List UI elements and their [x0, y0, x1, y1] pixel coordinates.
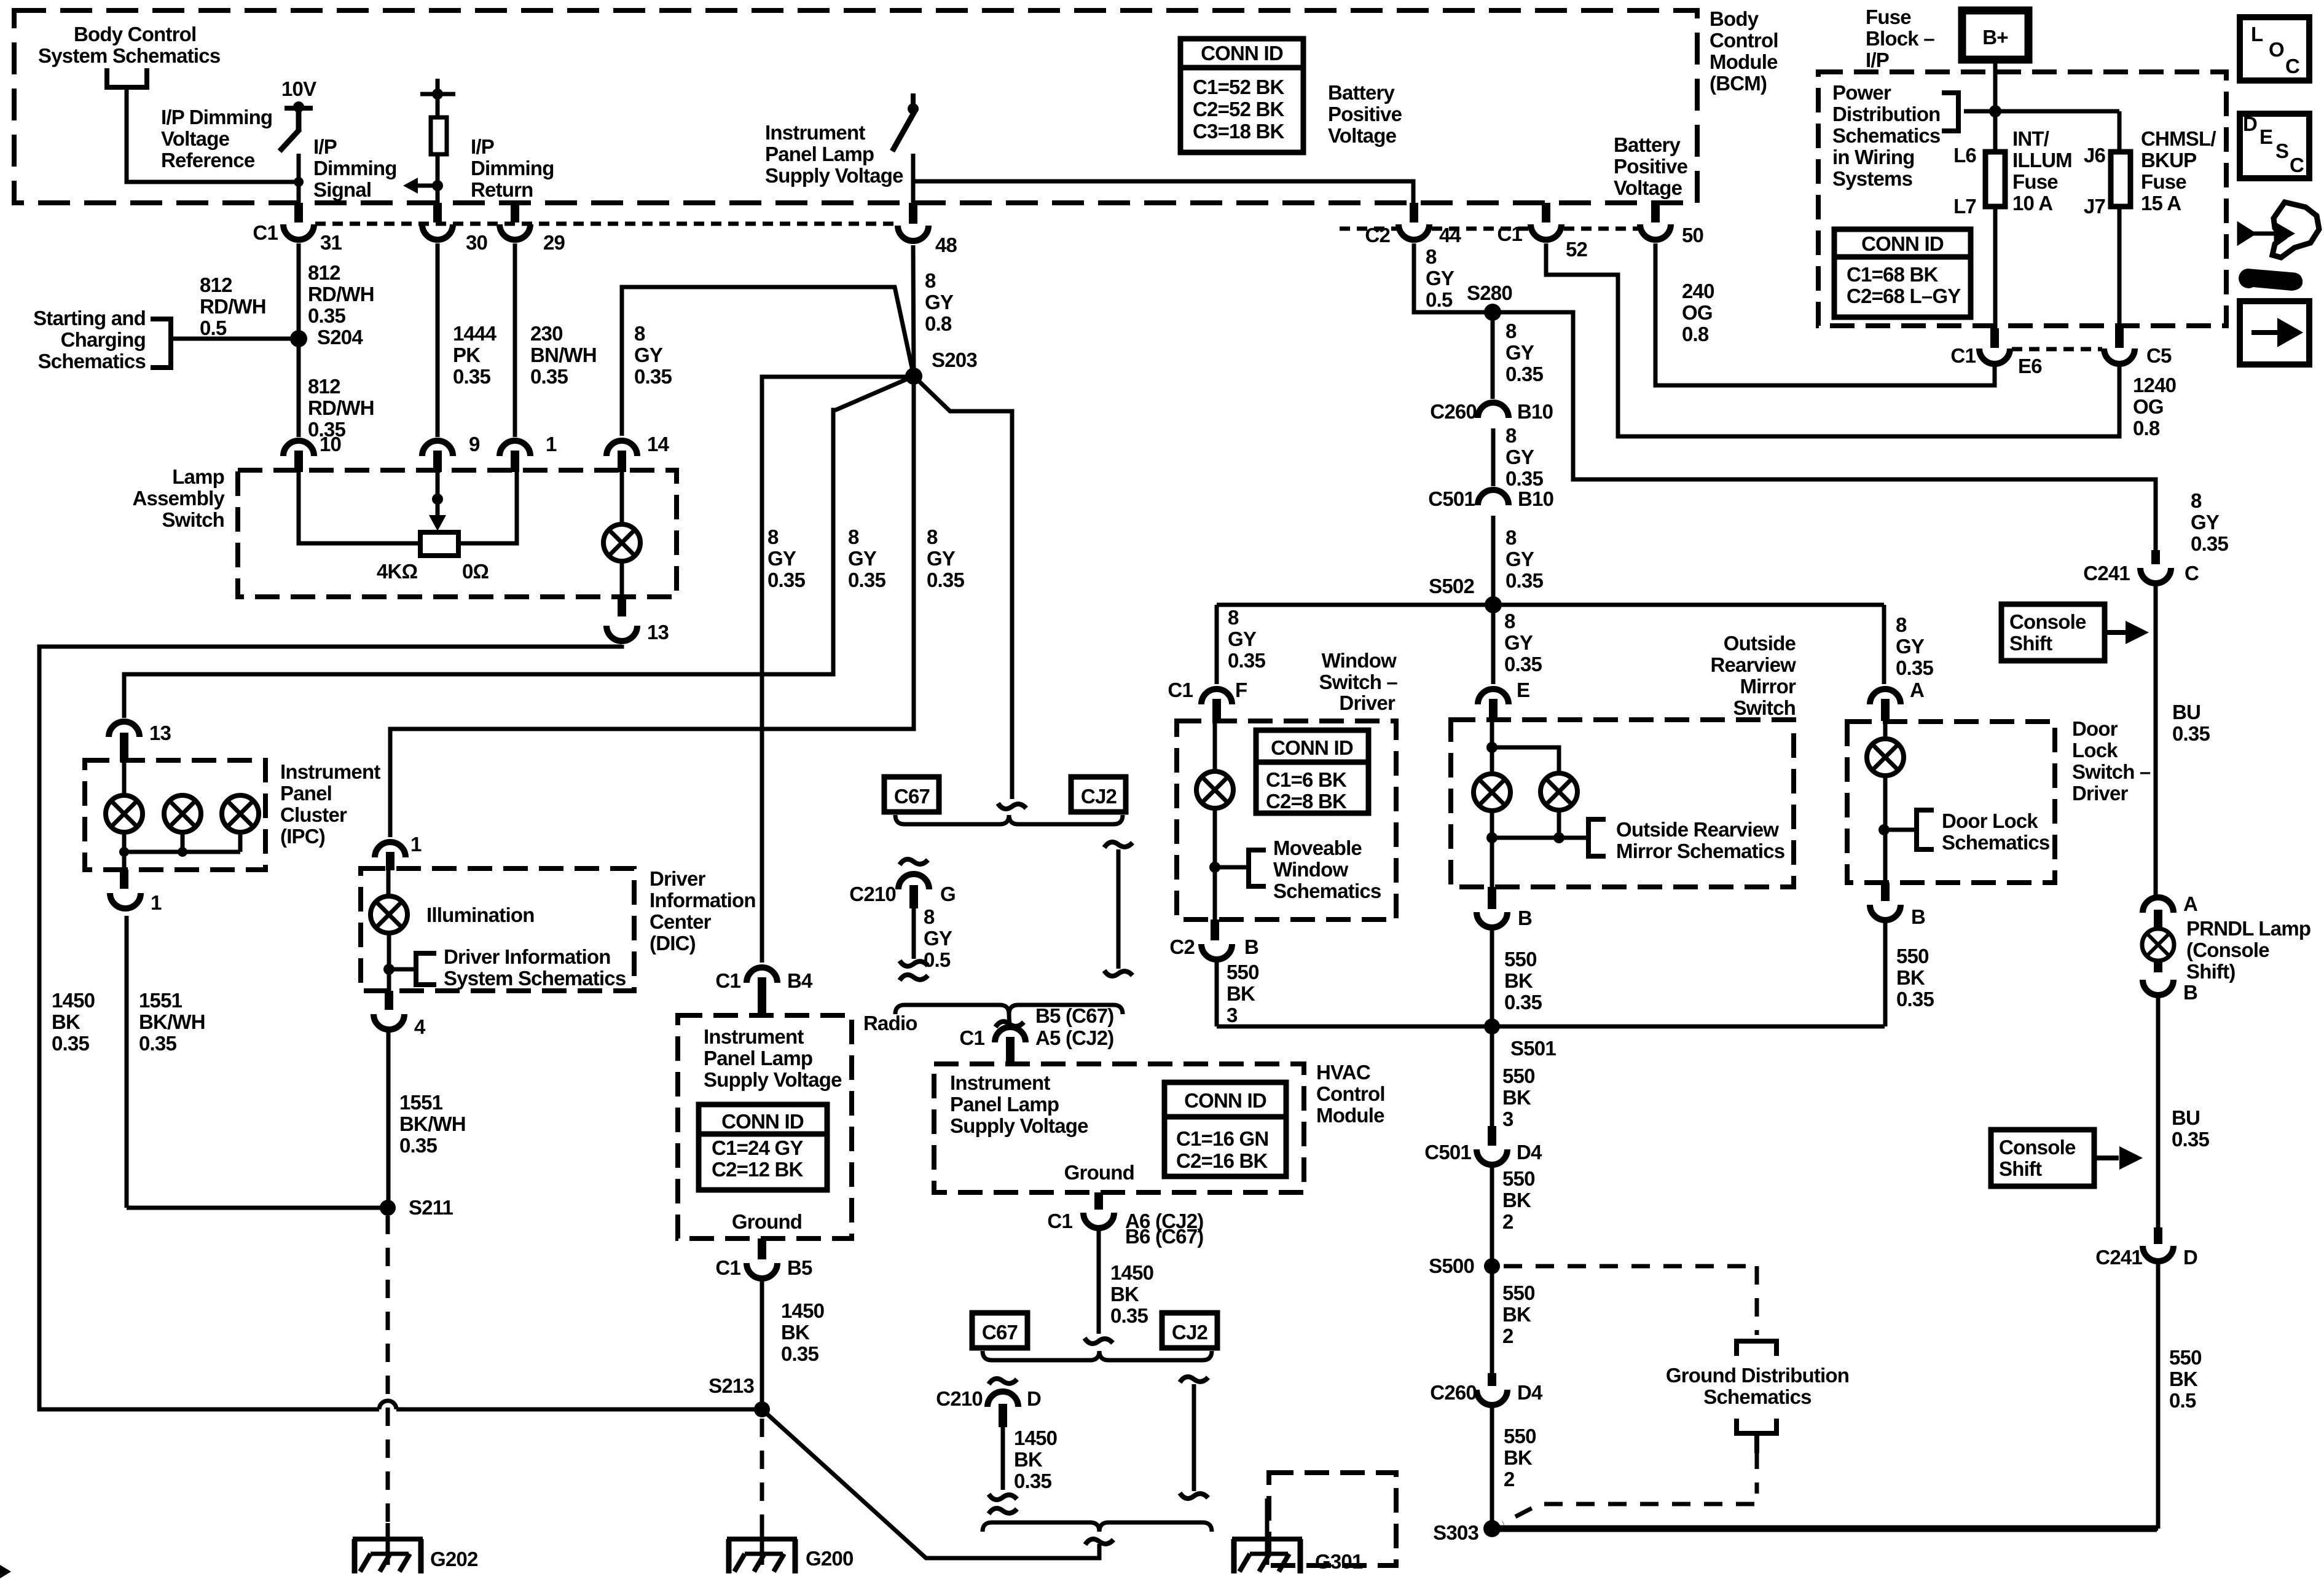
svg-text:8: 8 [1505, 320, 1517, 342]
svg-text:8: 8 [1426, 245, 1437, 268]
svg-text:GY: GY [1896, 635, 1925, 658]
svg-text:0Ω: 0Ω [462, 560, 489, 583]
svg-text:Switch: Switch [1733, 696, 1796, 719]
svg-text:1: 1 [410, 833, 422, 856]
svg-text:A5 (CJ2): A5 (CJ2) [1035, 1026, 1113, 1049]
svg-text:31: 31 [320, 231, 342, 254]
svg-text:Panel: Panel [280, 782, 332, 805]
svg-text:A: A [2183, 892, 2197, 915]
svg-text:Control: Control [1710, 29, 1778, 52]
svg-text:S280: S280 [1467, 282, 1512, 304]
svg-text:2: 2 [1504, 1468, 1515, 1490]
svg-text:B: B [1911, 905, 1925, 928]
svg-text:1450: 1450 [52, 989, 95, 1012]
svg-text:Dimming: Dimming [313, 157, 397, 179]
svg-text:230: 230 [530, 322, 563, 345]
svg-text:2: 2 [1502, 1325, 1513, 1347]
svg-text:8: 8 [927, 526, 938, 548]
svg-text:J7: J7 [2084, 195, 2105, 218]
svg-text:J6: J6 [2084, 144, 2106, 167]
svg-text:Schematics: Schematics [1832, 124, 1940, 147]
svg-text:C2=52 BK: C2=52 BK [1193, 98, 1285, 120]
svg-text:BK: BK [1504, 969, 1533, 992]
svg-text:Battery: Battery [1614, 133, 1681, 156]
svg-text:G200: G200 [806, 1547, 854, 1570]
svg-text:0.35: 0.35 [308, 304, 345, 327]
svg-text:B4: B4 [787, 969, 813, 992]
svg-text:Ground: Ground [1064, 1161, 1134, 1184]
svg-text:BK/WH: BK/WH [399, 1112, 466, 1135]
svg-text:550: 550 [1227, 961, 1259, 983]
svg-text:GY: GY [1426, 267, 1454, 289]
svg-text:812: 812 [308, 261, 340, 284]
svg-text:GY: GY [1505, 548, 1534, 570]
svg-text:D4: D4 [1517, 1381, 1543, 1404]
svg-text:0.35: 0.35 [927, 569, 964, 591]
svg-text:C1: C1 [715, 1256, 740, 1279]
svg-text:C1: C1 [253, 221, 278, 244]
svg-text:Schematics: Schematics [1703, 1385, 1811, 1408]
svg-text:Illumination: Illumination [426, 904, 535, 926]
svg-text:C1=24 GY: C1=24 GY [712, 1136, 803, 1159]
svg-text:G202: G202 [430, 1548, 478, 1570]
svg-text:8: 8 [767, 526, 779, 548]
svg-text:S203: S203 [932, 348, 977, 371]
svg-text:52: 52 [1566, 238, 1588, 261]
svg-text:240: 240 [1682, 280, 1714, 302]
svg-text:Window: Window [1273, 858, 1348, 881]
svg-text:Mirror: Mirror [1740, 675, 1796, 698]
svg-text:Systems: Systems [1832, 167, 1912, 190]
svg-text:C2=12 BK: C2=12 BK [712, 1158, 804, 1181]
svg-text:Positive: Positive [1614, 155, 1688, 178]
svg-text:8: 8 [2191, 489, 2202, 512]
svg-text:0.35: 0.35 [1896, 988, 1934, 1010]
svg-text:Instrument: Instrument [704, 1025, 804, 1048]
svg-text:30: 30 [466, 231, 487, 254]
svg-text:S502: S502 [1429, 575, 1474, 597]
svg-text:F: F [1235, 679, 1247, 701]
svg-text:3: 3 [1227, 1004, 1238, 1026]
svg-text:0.35: 0.35 [52, 1032, 89, 1055]
svg-text:Control: Control [1316, 1082, 1385, 1105]
svg-text:S213: S213 [709, 1374, 754, 1397]
svg-text:Moveable: Moveable [1273, 837, 1362, 859]
svg-text:Instrument: Instrument [765, 121, 865, 144]
svg-text:Schematics: Schematics [38, 350, 146, 372]
svg-text:Center: Center [650, 910, 712, 933]
svg-text:GY: GY [2191, 511, 2220, 534]
svg-text:Switch: Switch [162, 508, 224, 531]
svg-text:812: 812 [308, 375, 340, 398]
svg-text:S211: S211 [409, 1196, 453, 1219]
svg-text:0.35: 0.35 [2191, 532, 2228, 555]
svg-text:C2=8 BK: C2=8 BK [1266, 790, 1347, 813]
svg-text:BK: BK [1502, 1086, 1531, 1109]
svg-text:B6 (C67): B6 (C67) [1125, 1225, 1203, 1248]
svg-text:C: C [2185, 562, 2199, 585]
svg-text:CHMSL/: CHMSL/ [2141, 127, 2216, 150]
svg-text:G301: G301 [1315, 1550, 1363, 1573]
svg-text:C210: C210 [849, 883, 896, 905]
svg-text:550: 550 [1896, 945, 1929, 967]
svg-text:8: 8 [925, 269, 936, 292]
svg-text:C: C [2290, 154, 2304, 176]
svg-text:1450: 1450 [781, 1299, 824, 1322]
svg-text:D4: D4 [1517, 1141, 1542, 1164]
svg-text:BK: BK [1502, 1189, 1531, 1211]
svg-text:48: 48 [935, 234, 957, 256]
svg-text:550: 550 [1502, 1167, 1535, 1190]
svg-text:C3=18 BK: C3=18 BK [1193, 120, 1285, 143]
svg-text:CONN ID: CONN ID [1271, 736, 1353, 759]
svg-text:Fuse: Fuse [2012, 170, 2058, 193]
svg-text:OG: OG [2133, 395, 2164, 418]
svg-text:8: 8 [1505, 424, 1517, 447]
svg-text:BK: BK [1502, 1303, 1531, 1326]
svg-text:C241: C241 [2095, 1246, 2142, 1269]
svg-text:8: 8 [1504, 610, 1515, 632]
svg-text:(IPC): (IPC) [280, 825, 325, 848]
svg-text:Door Lock: Door Lock [1942, 809, 2038, 832]
svg-text:Body: Body [1710, 7, 1759, 30]
svg-text:Supply Voltage: Supply Voltage [950, 1114, 1088, 1137]
svg-text:550: 550 [1504, 948, 1537, 971]
svg-text:0.5: 0.5 [1426, 288, 1453, 311]
svg-text:B10: B10 [1517, 400, 1553, 423]
svg-text:10V: 10V [281, 77, 316, 100]
svg-text:Outside Rearview: Outside Rearview [1616, 818, 1779, 841]
svg-text:D: D [2183, 1246, 2197, 1269]
svg-text:Positive: Positive [1328, 103, 1402, 125]
svg-text:Shift: Shift [1999, 1157, 2042, 1180]
svg-text:Window: Window [1322, 649, 1397, 672]
svg-text:0.35: 0.35 [848, 569, 885, 591]
svg-text:10: 10 [320, 433, 341, 455]
svg-text:G: G [940, 883, 956, 905]
svg-text:Console: Console [1999, 1136, 2076, 1159]
svg-text:Body Control: Body Control [74, 23, 196, 45]
svg-text:Supply Voltage: Supply Voltage [765, 164, 903, 187]
svg-text:Reference: Reference [161, 149, 255, 171]
svg-text:8: 8 [634, 322, 645, 345]
svg-text:GY: GY [767, 547, 796, 570]
svg-text:Switch –: Switch – [1319, 671, 1398, 693]
svg-text:GY: GY [1505, 341, 1534, 364]
svg-text:Mirror Schematics: Mirror Schematics [1616, 840, 1784, 862]
svg-text:8: 8 [1228, 606, 1239, 629]
svg-text:A: A [1910, 679, 1924, 701]
svg-text:C1=16 GN: C1=16 GN [1176, 1127, 1268, 1150]
svg-text:44: 44 [1439, 224, 1462, 246]
svg-text:8: 8 [924, 905, 935, 928]
svg-text:C1: C1 [1950, 344, 1976, 367]
svg-text:1450: 1450 [1110, 1261, 1153, 1284]
svg-text:0.8: 0.8 [1682, 323, 1709, 345]
svg-text:O: O [2269, 38, 2284, 61]
svg-text:C2=68 L–GY: C2=68 L–GY [1847, 285, 1961, 307]
svg-text:15 A: 15 A [2141, 192, 2181, 215]
svg-text:BK: BK [1227, 982, 1255, 1005]
svg-text:1444: 1444 [453, 322, 497, 345]
svg-text:C2: C2 [1365, 224, 1390, 246]
svg-text:Console: Console [2009, 610, 2086, 633]
svg-text:Voltage: Voltage [1328, 124, 1397, 147]
svg-text:Shift: Shift [2009, 632, 2052, 655]
svg-text:C1: C1 [1168, 679, 1193, 701]
svg-text:Module: Module [1316, 1104, 1384, 1127]
svg-text:D: D [2243, 112, 2257, 135]
svg-text:0.8: 0.8 [2133, 417, 2160, 439]
svg-text:Information: Information [650, 889, 756, 912]
svg-text:1450: 1450 [1014, 1427, 1057, 1449]
svg-text:0.5: 0.5 [924, 948, 951, 971]
svg-text:B10: B10 [1518, 487, 1553, 510]
svg-text:BU: BU [2172, 701, 2200, 723]
svg-text:C1: C1 [959, 1026, 984, 1049]
svg-text:1551: 1551 [139, 989, 183, 1012]
svg-text:C67: C67 [894, 785, 930, 808]
svg-text:I/P: I/P [313, 135, 337, 158]
svg-text:Driver: Driver [650, 867, 706, 890]
svg-text:0.35: 0.35 [1504, 991, 1542, 1014]
svg-text:Ground Distribution: Ground Distribution [1666, 1364, 1849, 1387]
svg-text:Ground: Ground [732, 1210, 802, 1233]
svg-text:0.35: 0.35 [1505, 569, 1543, 592]
svg-text:GY: GY [924, 927, 952, 950]
svg-text:S501: S501 [1510, 1037, 1556, 1060]
svg-text:0.35: 0.35 [1504, 653, 1542, 675]
svg-text:1240: 1240 [2133, 374, 2176, 396]
svg-text:C1=68 BK: C1=68 BK [1847, 263, 1939, 286]
svg-text:Lamp: Lamp [172, 465, 224, 488]
svg-text:E: E [2259, 125, 2272, 148]
svg-text:Assembly: Assembly [132, 487, 225, 510]
svg-text:Distribution: Distribution [1832, 103, 1941, 125]
svg-text:S204: S204 [317, 326, 363, 348]
svg-text:BKUP: BKUP [2141, 149, 2196, 171]
svg-text:C260: C260 [1430, 1381, 1477, 1404]
svg-text:CONN ID: CONN ID [1184, 1089, 1266, 1112]
svg-text:Battery: Battery [1328, 81, 1396, 104]
svg-text:CONN ID: CONN ID [721, 1110, 804, 1133]
svg-text:RD/WH: RD/WH [308, 396, 374, 419]
svg-text:GY: GY [925, 291, 954, 313]
svg-text:Fuse: Fuse [1866, 6, 1911, 28]
svg-text:0.35: 0.35 [1505, 467, 1543, 490]
svg-text:BN/WH: BN/WH [530, 344, 597, 366]
svg-text:C1: C1 [715, 969, 740, 992]
svg-text:PRNDL Lamp: PRNDL Lamp [2186, 917, 2310, 940]
svg-text:BK: BK [1504, 1446, 1533, 1469]
svg-text:C260: C260 [1430, 400, 1477, 423]
svg-text:OG: OG [1682, 301, 1713, 324]
svg-text:0.35: 0.35 [767, 569, 805, 591]
svg-text:C2: C2 [1169, 935, 1195, 958]
svg-text:0.35: 0.35 [634, 365, 672, 388]
svg-text:Panel Lamp: Panel Lamp [950, 1093, 1059, 1116]
svg-text:S303: S303 [1433, 1521, 1478, 1544]
svg-text:BK: BK [781, 1321, 810, 1344]
svg-text:(BCM): (BCM) [1710, 72, 1767, 95]
svg-text:RD/WH: RD/WH [200, 295, 266, 318]
svg-text:System Schematics: System Schematics [444, 967, 626, 990]
svg-text:8: 8 [1505, 526, 1517, 549]
svg-text:S500: S500 [1429, 1254, 1474, 1277]
svg-text:0.35: 0.35 [453, 365, 490, 388]
svg-text:10 A: 10 A [2012, 192, 2052, 215]
svg-text:C1=6 BK: C1=6 BK [1266, 768, 1347, 791]
svg-text:CJ2: CJ2 [1081, 785, 1117, 808]
svg-text:Return: Return [471, 178, 533, 201]
svg-text:CJ2: CJ2 [1172, 1321, 1208, 1344]
svg-text:13: 13 [149, 722, 171, 744]
svg-text:GY: GY [1228, 628, 1257, 650]
svg-text:System Schematics: System Schematics [38, 44, 220, 67]
svg-text:I/P: I/P [1866, 49, 1889, 71]
svg-text:Door: Door [2072, 717, 2118, 740]
svg-text:0.5: 0.5 [200, 317, 227, 339]
svg-text:ILLUM: ILLUM [2012, 149, 2072, 171]
svg-text:Panel Lamp: Panel Lamp [704, 1047, 812, 1069]
svg-text:0.35: 0.35 [399, 1134, 437, 1157]
svg-text:550: 550 [1502, 1065, 1535, 1087]
svg-text:Voltage: Voltage [1614, 176, 1682, 199]
svg-text:9: 9 [469, 433, 480, 455]
svg-text:0.35: 0.35 [781, 1342, 819, 1365]
svg-text:Driver: Driver [2072, 782, 2129, 805]
svg-text:Signal: Signal [313, 178, 371, 201]
svg-text:0.35: 0.35 [530, 365, 568, 388]
svg-text:1551: 1551 [399, 1091, 443, 1114]
svg-text:BK: BK [1110, 1283, 1139, 1305]
svg-text:C241: C241 [2083, 562, 2130, 585]
svg-text:C1: C1 [1497, 222, 1522, 245]
svg-text:BK: BK [52, 1010, 80, 1033]
svg-text:in Wiring: in Wiring [1832, 146, 1915, 168]
svg-text:B: B [2183, 981, 2197, 1004]
svg-text:HVAC: HVAC [1316, 1061, 1370, 1084]
svg-text:L6: L6 [1953, 144, 1976, 167]
svg-text:Dimming: Dimming [471, 157, 554, 179]
svg-text:4: 4 [414, 1015, 426, 1038]
svg-text:C1=52 BK: C1=52 BK [1193, 76, 1285, 98]
svg-text:C5: C5 [2146, 344, 2172, 367]
svg-text:Driver: Driver [1339, 691, 1396, 714]
svg-text:Supply Voltage: Supply Voltage [704, 1068, 842, 1091]
svg-text:0.35: 0.35 [1014, 1470, 1051, 1492]
svg-text:Instrument: Instrument [950, 1071, 1050, 1094]
svg-text:GY: GY [927, 547, 956, 570]
svg-text:0.35: 0.35 [139, 1032, 176, 1055]
svg-text:0.5: 0.5 [2169, 1389, 2196, 1412]
svg-text:Lock: Lock [2072, 739, 2118, 762]
svg-text:1: 1 [151, 891, 162, 914]
svg-text:812: 812 [200, 274, 232, 296]
svg-text:8: 8 [1896, 613, 1907, 636]
svg-text:B: B [1518, 907, 1532, 929]
svg-text:14: 14 [647, 433, 670, 455]
svg-text:B: B [1244, 935, 1258, 958]
svg-text:BU: BU [2172, 1106, 2200, 1129]
svg-text:BK/WH: BK/WH [139, 1010, 205, 1033]
svg-text:C: C [2285, 55, 2299, 77]
svg-text:S: S [2275, 140, 2288, 162]
svg-text:BK: BK [1896, 966, 1925, 989]
svg-text:(DIC): (DIC) [650, 932, 696, 955]
svg-text:L7: L7 [1953, 195, 1976, 218]
svg-text:GY: GY [1505, 446, 1534, 468]
svg-text:Schematics: Schematics [1942, 831, 2049, 854]
svg-text:0.35: 0.35 [1228, 649, 1265, 672]
svg-text:GY: GY [634, 344, 663, 366]
svg-text:GY: GY [1504, 631, 1533, 654]
svg-text:I/P Dimming: I/P Dimming [161, 106, 272, 128]
svg-text:B5 (C67): B5 (C67) [1035, 1004, 1113, 1027]
svg-text:BK: BK [1014, 1448, 1043, 1471]
svg-text:Panel Lamp: Panel Lamp [765, 143, 874, 165]
svg-text:Fuse: Fuse [2141, 170, 2186, 193]
svg-text:E: E [1517, 679, 1529, 701]
svg-text:(Console: (Console [2186, 939, 2269, 961]
svg-text:BK: BK [2169, 1368, 2198, 1390]
svg-text:8: 8 [848, 526, 859, 548]
svg-text:I/P: I/P [471, 135, 494, 158]
svg-text:D: D [1027, 1387, 1041, 1410]
svg-text:Power: Power [1832, 81, 1891, 104]
svg-text:C501: C501 [1428, 487, 1475, 510]
svg-text:3: 3 [1502, 1108, 1513, 1130]
svg-text:50: 50 [1682, 224, 1703, 246]
svg-text:0.35: 0.35 [1896, 656, 1933, 679]
svg-text:550: 550 [1502, 1282, 1535, 1304]
svg-text:Instrument: Instrument [280, 760, 380, 783]
svg-text:Starting and: Starting and [33, 307, 146, 329]
svg-text:PK: PK [453, 344, 481, 366]
svg-text:0.35: 0.35 [2172, 722, 2210, 745]
svg-text:GY: GY [848, 547, 877, 570]
svg-text:Block –: Block – [1866, 27, 1934, 50]
svg-text:RD/WH: RD/WH [308, 283, 374, 305]
svg-text:Driver Information: Driver Information [444, 945, 611, 968]
svg-text:C1: C1 [1047, 1210, 1072, 1232]
svg-text:C210: C210 [936, 1387, 983, 1410]
svg-text:CONN ID: CONN ID [1861, 232, 1944, 255]
svg-text:0.35: 0.35 [1505, 363, 1543, 385]
svg-text:13: 13 [647, 621, 669, 644]
svg-text:Module: Module [1710, 50, 1778, 73]
svg-text:E6: E6 [2018, 355, 2042, 377]
svg-text:29: 29 [543, 231, 565, 254]
svg-text:INT/: INT/ [2012, 127, 2049, 150]
svg-text:C2=16 BK: C2=16 BK [1176, 1149, 1268, 1172]
svg-text:4KΩ: 4KΩ [377, 560, 418, 583]
svg-text:0.35: 0.35 [2172, 1128, 2209, 1151]
svg-text:B5: B5 [787, 1256, 812, 1279]
svg-text:L: L [2251, 23, 2263, 45]
svg-text:Voltage: Voltage [161, 127, 230, 150]
svg-text:B+: B+ [1982, 26, 2008, 49]
svg-text:2: 2 [1502, 1210, 1513, 1233]
svg-text:550: 550 [2169, 1346, 2202, 1369]
svg-text:Outside: Outside [1724, 632, 1796, 655]
svg-text:C67: C67 [982, 1321, 1018, 1344]
svg-text:Shift): Shift) [2186, 960, 2236, 983]
svg-text:550: 550 [1504, 1425, 1536, 1447]
svg-text:0.35: 0.35 [1110, 1304, 1148, 1327]
svg-text:Switch –: Switch – [2072, 760, 2151, 783]
svg-text:Cluster: Cluster [280, 803, 347, 826]
